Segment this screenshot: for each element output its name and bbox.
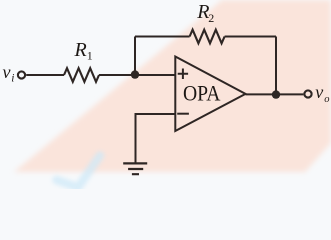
node B junction dot [272, 90, 280, 98]
svg-text:o: o [324, 94, 329, 105]
op-amp minus sign [177, 113, 189, 115]
svg-text:R: R [74, 39, 87, 61]
pink watermark band [14, 0, 331, 172]
node A junction dot [131, 70, 139, 78]
wire right vertical down [275, 37, 277, 95]
wire node A up [134, 37, 136, 76]
checkmark watermark [57, 156, 101, 188]
background base [0, 0, 331, 189]
svg-text:1: 1 [87, 49, 93, 63]
terminal vi open circle [18, 71, 25, 78]
wire minus input [136, 114, 176, 163]
svg-text:2: 2 [208, 11, 214, 25]
svg-text:v: v [3, 62, 11, 82]
resistor R1 [64, 68, 99, 82]
ground [123, 163, 147, 174]
wire R2 to right vertical [225, 36, 276, 38]
op-amp plus sign [178, 69, 188, 80]
svg-text:v: v [315, 82, 323, 102]
svg-text:i: i [11, 73, 14, 85]
wire output [246, 93, 304, 95]
op-amp U1 triangle [175, 57, 245, 132]
wire input to R1 [26, 74, 64, 76]
wire R1 to op-amp + input [99, 74, 175, 76]
terminal vo open circle [304, 90, 311, 97]
resistor R2 [190, 30, 225, 44]
svg-text:OPA: OPA [183, 81, 221, 105]
wire top left to R2 [135, 36, 190, 38]
